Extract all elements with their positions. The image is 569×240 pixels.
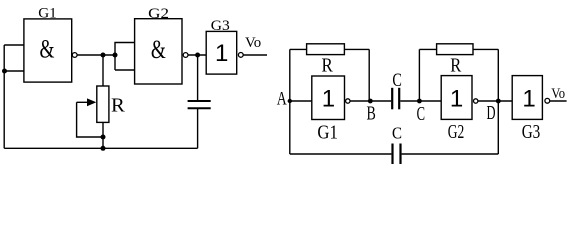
- svg-text:1: 1: [215, 40, 228, 67]
- wiper arrow head: [87, 98, 96, 106]
- svg-text:1: 1: [450, 86, 463, 113]
- gate G2 box: [135, 19, 182, 84]
- svg-text:G3: G3: [211, 18, 230, 34]
- wire left feedback vertical: [3, 45, 5, 148]
- resistor R2 box: [437, 44, 473, 55]
- gate G3 box: [206, 31, 237, 74]
- junction dot rail: [101, 146, 106, 151]
- svg-text:A: A: [277, 90, 287, 110]
- bubble right G1 output: [346, 99, 350, 103]
- capacitor C1 plates: [391, 88, 393, 110]
- svg-text:G1: G1: [38, 5, 57, 21]
- wire node C vertical: [418, 49, 420, 101]
- junction dot wiper: [101, 135, 106, 140]
- wire G2 output to G3: [188, 54, 206, 56]
- wiper arrow line: [77, 101, 88, 103]
- junction dot to R: [101, 53, 106, 58]
- svg-text:1: 1: [522, 86, 535, 113]
- node C dot: [417, 99, 422, 104]
- potentiometer R box: [97, 86, 109, 122]
- resistor R1 loop wires: [290, 49, 369, 101]
- wire G1 lower input: [4, 70, 24, 72]
- svg-text:R: R: [322, 54, 334, 76]
- gate G2 right box: [441, 76, 472, 120]
- svg-text:G1: G1: [317, 121, 338, 143]
- svg-text:Vo: Vo: [551, 86, 565, 102]
- wire R bottom to rail: [102, 122, 104, 148]
- svg-text:D: D: [487, 102, 496, 124]
- bubble G2 output: [183, 53, 188, 58]
- wire C1 to G2 input: [400, 100, 441, 102]
- capacitor C2 plates: [391, 144, 393, 165]
- node B dot: [368, 99, 373, 104]
- wire G1 output to G2 bracket: [77, 54, 115, 56]
- wire bracket G2 inputs: [115, 43, 135, 71]
- resistor R1 box: [307, 44, 345, 55]
- junction dot to G2 inputs: [113, 53, 118, 58]
- node D dot: [496, 99, 501, 104]
- svg-text:Vo: Vo: [245, 35, 261, 51]
- svg-text:C: C: [392, 124, 402, 143]
- wire Vo output: [243, 54, 267, 56]
- svg-text:&: &: [151, 35, 166, 64]
- svg-text:R: R: [111, 95, 125, 117]
- junction dot to capacitor: [195, 53, 200, 58]
- wire capacitor to rail: [197, 108, 199, 148]
- wire down to capacitor: [197, 55, 199, 101]
- svg-text:&: &: [40, 34, 55, 63]
- junction dot left feedback: [2, 69, 7, 74]
- bubble G3 output: [238, 53, 243, 58]
- bubble right G2 output: [474, 99, 478, 103]
- bubble G1 output: [72, 53, 77, 58]
- svg-text:C: C: [392, 71, 402, 91]
- svg-text:G3: G3: [522, 121, 541, 143]
- node A dot: [288, 99, 292, 103]
- svg-text:C: C: [417, 103, 425, 125]
- wire right Vo output: [550, 100, 567, 102]
- resistor R2 loop wires: [419, 49, 498, 154]
- svg-text:1: 1: [322, 86, 335, 113]
- svg-text:G2: G2: [448, 121, 465, 143]
- gate G3 right box: [512, 76, 542, 120]
- wire G1 upper input: [4, 44, 24, 46]
- wire down to resistor R top: [102, 55, 104, 86]
- wiper wire: [77, 102, 103, 137]
- wire bottom feedback: [290, 153, 499, 155]
- bubble right G3 output: [545, 98, 550, 103]
- wire bottom rail: [4, 147, 197, 149]
- svg-text:G2: G2: [148, 6, 169, 22]
- svg-text:R: R: [450, 54, 461, 76]
- capacitor left plates: [188, 100, 211, 102]
- wire G1 out to capacitor C1: [350, 100, 391, 102]
- wire G2 out to G3: [478, 100, 512, 102]
- wire A to G1 input: [290, 100, 312, 102]
- gate G1 box: [24, 19, 72, 82]
- wire node A vertical: [289, 49, 291, 154]
- gate G1 right box: [312, 76, 345, 120]
- svg-text:B: B: [367, 103, 376, 125]
